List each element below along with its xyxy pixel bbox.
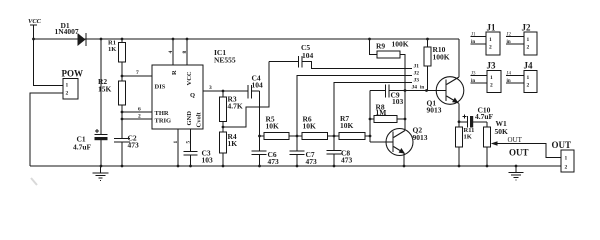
svg-text:in: in bbox=[507, 79, 511, 84]
svg-text:in: in bbox=[471, 40, 475, 45]
svg-text:J3: J3 bbox=[414, 78, 420, 84]
svg-text:1K: 1K bbox=[108, 46, 116, 53]
svg-text:J1: J1 bbox=[414, 64, 420, 70]
capacitor C9 103 bbox=[370, 85, 446, 107]
IC pin 5 control bbox=[190, 129, 192, 152]
connector J2 bbox=[506, 23, 537, 56]
IC pin 1 gnd bbox=[177, 129, 179, 166]
resistor R1 1K bbox=[108, 39, 126, 76]
capacitor C6 473 bbox=[252, 136, 280, 166]
svg-text:473: 473 bbox=[128, 141, 140, 150]
resistor R6 10K bbox=[302, 115, 339, 140]
svg-text:6: 6 bbox=[138, 107, 141, 113]
diode D1 1N4007 bbox=[55, 21, 86, 46]
svg-text:9013: 9013 bbox=[427, 106, 442, 115]
wire VCC to POW pin1 bbox=[34, 39, 64, 86]
potentiometer W1 50K bbox=[484, 119, 509, 166]
svg-text:2: 2 bbox=[527, 45, 530, 51]
connector POW bbox=[62, 69, 84, 100]
ground symbol right bbox=[509, 166, 524, 180]
svg-text:1: 1 bbox=[565, 156, 568, 162]
svg-text:1: 1 bbox=[490, 75, 493, 81]
svg-text:100K: 100K bbox=[392, 40, 409, 49]
svg-text:1N4007: 1N4007 bbox=[55, 27, 79, 36]
transistor Q1 9013 bbox=[427, 39, 464, 122]
svg-text:J4: J4 bbox=[507, 71, 512, 76]
connector OUT bbox=[552, 140, 575, 172]
svg-text:TRIG: TRIG bbox=[155, 118, 172, 125]
svg-text:2: 2 bbox=[490, 83, 493, 89]
svg-text:4.7uF: 4.7uF bbox=[73, 143, 92, 152]
wire base node vertical bbox=[370, 91, 393, 143]
svg-text:NE555: NE555 bbox=[214, 56, 236, 65]
svg-text:2: 2 bbox=[489, 45, 492, 51]
svg-text:50K: 50K bbox=[495, 127, 509, 136]
resistor R7 10K bbox=[339, 114, 370, 140]
svg-text:1: 1 bbox=[527, 75, 530, 81]
svg-text:1: 1 bbox=[66, 83, 69, 89]
wire ground rail bottom bbox=[30, 165, 561, 167]
wire net J2 bbox=[297, 76, 412, 137]
svg-text:J2: J2 bbox=[414, 71, 420, 77]
svg-text:R9: R9 bbox=[376, 42, 385, 51]
wire pin6 THR bbox=[122, 111, 152, 113]
svg-text:10K: 10K bbox=[340, 121, 354, 130]
svg-text:J4: J4 bbox=[412, 85, 418, 91]
svg-text:VCC: VCC bbox=[186, 71, 193, 85]
svg-text:103: 103 bbox=[202, 156, 214, 165]
svg-text:J4: J4 bbox=[524, 61, 534, 71]
capacitor C4 104 bbox=[248, 74, 263, 137]
wire R3/R4 junction to C5 bbox=[223, 62, 269, 128]
svg-text:THR: THR bbox=[155, 110, 169, 117]
resistor R2 15K bbox=[98, 76, 126, 119]
svg-text:4.7uF: 4.7uF bbox=[475, 112, 494, 121]
svg-text:104: 104 bbox=[252, 81, 264, 90]
svg-text:4.7K: 4.7K bbox=[228, 102, 243, 111]
svg-text:in: in bbox=[420, 86, 424, 91]
capacitor C1 4.7uF bbox=[73, 39, 108, 166]
svg-text:2: 2 bbox=[565, 165, 568, 171]
wire pin7 DIS bbox=[122, 75, 152, 77]
svg-text:1: 1 bbox=[527, 37, 530, 43]
connector J4 bbox=[506, 61, 537, 93]
svg-text:Q: Q bbox=[190, 92, 195, 99]
capacitor C2 473 bbox=[114, 119, 139, 166]
wire pin2 TRIG bbox=[122, 118, 152, 120]
svg-text:9013: 9013 bbox=[413, 133, 428, 142]
svg-text:5: 5 bbox=[186, 141, 192, 144]
svg-text:in: in bbox=[507, 40, 511, 45]
VCC power symbol bbox=[28, 18, 42, 39]
IC pin 8 vcc bbox=[186, 39, 188, 65]
svg-text:GND: GND bbox=[186, 111, 193, 126]
resistor R9 100K bbox=[370, 39, 409, 91]
IC pin 4 reset bbox=[172, 39, 174, 65]
connector J1 bbox=[471, 23, 501, 56]
capacitor C5 104 bbox=[269, 43, 314, 68]
wire POW pin2 to ground rail bbox=[30, 93, 63, 166]
wire net J1 bbox=[302, 62, 412, 69]
svg-text:J2: J2 bbox=[507, 32, 512, 37]
capacitor C7 473 bbox=[290, 136, 318, 166]
op-amp U1 IC1 NE555 box bbox=[152, 48, 236, 129]
svg-text:7: 7 bbox=[136, 70, 139, 76]
svg-text:103: 103 bbox=[392, 97, 404, 106]
svg-text:1M: 1M bbox=[376, 108, 387, 117]
svg-text:J1: J1 bbox=[471, 32, 476, 37]
ground symbol left bbox=[93, 166, 109, 180]
svg-text:OUT: OUT bbox=[509, 148, 529, 158]
svg-text:3: 3 bbox=[209, 85, 212, 91]
resistor R3 4.7K bbox=[220, 91, 243, 127]
svg-text:473: 473 bbox=[306, 157, 318, 166]
capacitor C8 473 bbox=[327, 136, 353, 166]
svg-text:100K: 100K bbox=[433, 53, 450, 62]
svg-text:8: 8 bbox=[182, 51, 188, 54]
wire W1 wiper to OUT bbox=[497, 144, 561, 158]
resistor R11 1K bbox=[456, 122, 475, 166]
svg-text:104: 104 bbox=[302, 51, 314, 60]
resistor R4 1K bbox=[220, 127, 238, 166]
svg-text:10K: 10K bbox=[266, 122, 280, 131]
svg-text:OUT: OUT bbox=[552, 140, 572, 150]
svg-text:2: 2 bbox=[66, 91, 69, 97]
resistor R8 1M bbox=[370, 103, 405, 123]
wire net J3 bbox=[334, 83, 412, 137]
svg-text:15K: 15K bbox=[98, 85, 112, 94]
svg-text:2: 2 bbox=[527, 83, 530, 89]
svg-text:J2: J2 bbox=[522, 23, 532, 33]
svg-text:POW: POW bbox=[62, 69, 84, 79]
svg-text:DIS: DIS bbox=[155, 84, 166, 91]
svg-text:2: 2 bbox=[138, 114, 141, 120]
transistor Q2 9013 bbox=[386, 91, 428, 167]
svg-text:J3: J3 bbox=[471, 71, 476, 76]
svg-text:1K: 1K bbox=[228, 139, 238, 148]
wire pin3 output bbox=[203, 90, 248, 92]
svg-text:473: 473 bbox=[341, 156, 353, 165]
connector J3 bbox=[471, 61, 502, 93]
resistor R5 10K bbox=[260, 115, 303, 140]
capacitor C3 103 bbox=[184, 149, 214, 167]
svg-text:R: R bbox=[171, 70, 178, 75]
svg-text:J3: J3 bbox=[487, 61, 497, 71]
svg-text:4: 4 bbox=[168, 51, 174, 54]
svg-text:OUT: OUT bbox=[508, 136, 523, 144]
resistor R10 100K bbox=[424, 39, 450, 91]
svg-text:VCC: VCC bbox=[28, 18, 42, 25]
svg-text:473: 473 bbox=[268, 157, 280, 166]
svg-text:in: in bbox=[471, 79, 475, 84]
svg-text:J1: J1 bbox=[487, 23, 497, 33]
capacitor C10 4.7uF electrolytic bbox=[459, 106, 494, 128]
wire VCC rail top bbox=[34, 38, 460, 40]
svg-text:1: 1 bbox=[489, 37, 492, 43]
svg-text:1: 1 bbox=[173, 141, 179, 144]
svg-text:1K: 1K bbox=[464, 134, 472, 141]
svg-text:Cvolt: Cvolt bbox=[196, 112, 203, 128]
svg-text:10K: 10K bbox=[303, 122, 317, 131]
